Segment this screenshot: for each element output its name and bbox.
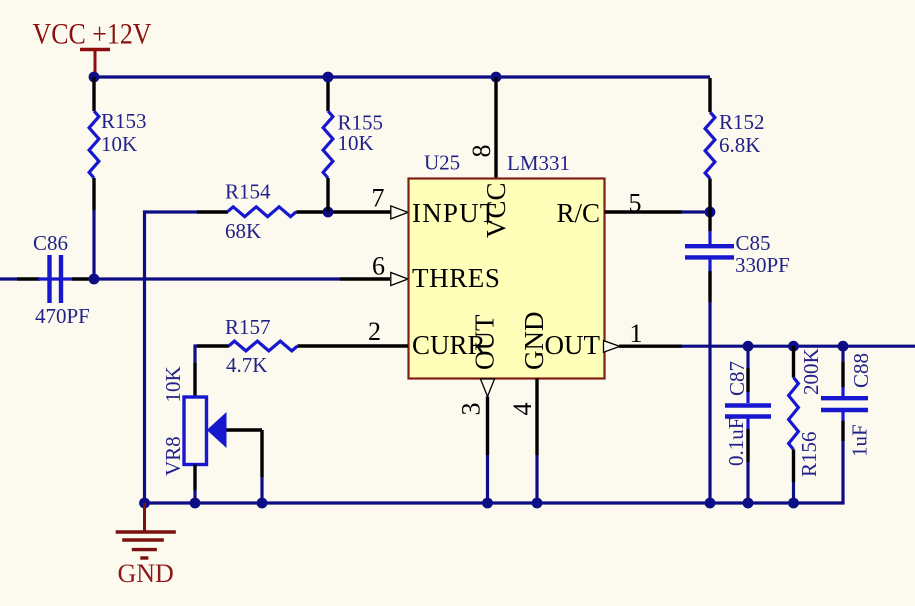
node R156 top junction [788, 341, 799, 352]
resistor R157 [195, 315, 408, 377]
wire VR8 bottom to bus [193, 490, 196, 503]
node R154/R155/pin7 junction [323, 207, 334, 218]
svg-text:C85: C85 [736, 231, 771, 255]
capacitor C87 [724, 346, 771, 466]
wire C88 to bus corner [841, 462, 844, 503]
svg-text:68K: 68K [225, 219, 261, 243]
resistor R156 [789, 346, 823, 482]
pin 3 arrow [481, 379, 495, 397]
node R155 top bus junction [323, 72, 334, 83]
svg-text:6: 6 [372, 252, 385, 281]
capacitor C86 [0, 231, 90, 328]
svg-text:6.8K: 6.8K [719, 133, 760, 157]
wire left column (R154 to GND) [145, 212, 198, 503]
node C87 top junction [743, 341, 754, 352]
svg-text:GND: GND [118, 559, 174, 588]
ground symbol [116, 503, 176, 588]
svg-text:C88: C88 [849, 353, 873, 388]
node R156 bottom junction [788, 498, 799, 509]
wire pin 3 to bus [486, 397, 489, 456]
svg-text:3: 3 [457, 403, 486, 416]
node C88 top junction [838, 341, 849, 352]
wire pin 5 R/C [605, 210, 682, 213]
node C86/R153/THRES junction [89, 274, 100, 285]
svg-text:1: 1 [630, 319, 643, 348]
svg-text:200K: 200K [799, 348, 823, 395]
svg-text:R153: R153 [101, 109, 147, 133]
node pin3 bottom junction [482, 498, 493, 509]
wire pin 4 to bus [535, 379, 538, 456]
svg-text:4: 4 [508, 403, 537, 416]
resistor R152 [705, 78, 764, 212]
resistor R154 [197, 180, 391, 244]
node GND bus left (GND symbol) [139, 498, 150, 509]
svg-text:10K: 10K [338, 131, 374, 155]
svg-text:R152: R152 [719, 110, 765, 134]
capacitor C85 [685, 212, 790, 302]
wire VCC top bus [94, 75, 710, 78]
svg-text:U25: U25 [424, 151, 460, 175]
pin 1 arrow [604, 341, 620, 353]
node wiper bottom junction [257, 498, 268, 509]
svg-text:VCC: VCC [481, 182, 511, 238]
svg-text:8: 8 [467, 145, 496, 158]
svg-text:2: 2 [368, 317, 381, 346]
capacitor C88 [821, 346, 873, 462]
wire OUT net [619, 345, 682, 348]
node VCC/R153 junction [89, 72, 100, 83]
svg-text:OUT: OUT [545, 330, 601, 360]
node C85 column bottom junction [705, 498, 716, 509]
svg-text:VCC +12V: VCC +12V [33, 18, 152, 51]
wire C85 to bottom bus (crosses OUT net) [708, 302, 711, 503]
wire C87 to bus [746, 462, 749, 503]
svg-text:470PF: 470PF [35, 304, 90, 328]
resistor R153 [89, 77, 146, 210]
svg-text:C86: C86 [33, 231, 68, 255]
svg-text:R/C: R/C [556, 198, 600, 228]
svg-text:R157: R157 [225, 315, 271, 339]
svg-text:VR8: VR8 [161, 436, 185, 476]
wire bottom GND bus [145, 501, 845, 504]
svg-text:0.1uF: 0.1uF [724, 418, 748, 466]
svg-text:1uF: 1uF [848, 424, 872, 457]
node pin4 bottom junction [532, 498, 543, 509]
svg-text:7: 7 [372, 184, 385, 213]
node C87 bottom junction [743, 498, 754, 509]
svg-text:R154: R154 [225, 180, 271, 204]
svg-text:4.7K: 4.7K [226, 353, 267, 377]
svg-text:THRES: THRES [412, 263, 501, 293]
wire THRES net [94, 277, 340, 280]
node R152/C85/pin5 junction [705, 207, 716, 218]
power symbol VCC +12V [33, 18, 152, 78]
svg-text:330PF: 330PF [735, 253, 790, 277]
potentiometer VR8 [161, 363, 227, 490]
svg-text:R156: R156 [797, 431, 821, 477]
pin 6 arrow [391, 273, 408, 286]
wire R156 to bus [792, 482, 795, 503]
svg-text:LM331: LM331 [507, 151, 570, 175]
svg-text:10K: 10K [161, 366, 185, 402]
svg-text:OUT: OUT [470, 314, 500, 370]
wire pin 8 VCC [494, 77, 497, 178]
node pin8 top bus junction [491, 72, 502, 83]
op-amp U25 LM331 body [409, 179, 605, 379]
svg-text:C87: C87 [725, 361, 749, 396]
wire R153 to C86 node [92, 210, 95, 279]
wire VR8 wiper [227, 430, 263, 503]
node VR8 bottom junction [190, 498, 201, 509]
resistor R155 [323, 77, 383, 212]
svg-text:10K: 10K [101, 132, 137, 156]
pin 7 arrow [391, 206, 408, 219]
